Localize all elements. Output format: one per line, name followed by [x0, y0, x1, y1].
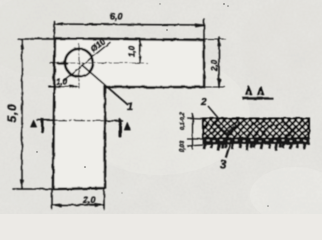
section arrow left (down) [41, 128, 44, 133]
dimension 2,0 bottom line [52, 204, 104, 206]
svg-text:2: 2 [200, 97, 207, 108]
svg-text:2,0: 2,0 [82, 195, 96, 205]
hole horizontal centerline [50, 62, 147, 64]
ink blob at circle left quadrant [58, 62, 67, 65]
letter A left [31, 120, 37, 127]
part interior fill [53, 39, 204, 190]
thickness dim line [192, 114, 194, 150]
hole Ø10 [65, 49, 93, 77]
arrow top 1,0 [139, 39, 142, 46]
dimension 2,0 right line [218, 37, 220, 87]
svg-text:1,0: 1,0 [128, 45, 137, 57]
svg-text:3: 3 [220, 160, 227, 172]
leader Ø10 diagonal [64, 43, 111, 81]
svg-text:1: 1 [127, 101, 133, 113]
arrow right 2,0 bottom [95, 204, 104, 207]
arrow top 2,0 right [218, 36, 221, 46]
arrow left 2,0 bottom [52, 204, 61, 207]
extension lines right for dim 2,0 [204, 39, 225, 87]
section body: cross-hatched layer (item 2) [203, 119, 309, 139]
arrow bottom 2,0 right [218, 79, 221, 88]
svg-text:5,0: 5,0 [5, 103, 19, 122]
white speckles in bottom layer [207, 139, 306, 141]
section stroke right [119, 121, 122, 137]
thickness extension ticks [187, 118, 203, 146]
section title underline [243, 97, 274, 99]
dimension 6,0 line [54, 24, 204, 25]
extension lines below for dim 2,0 bottom [52, 189, 104, 209]
leader item 2 [208, 106, 219, 119]
svg-text:2,0: 2,0 [210, 59, 219, 72]
arrow top 5,0 [21, 40, 24, 49]
extension line top-right (x=204 above part) [203, 19, 205, 39]
arrow right 6,0 [195, 24, 204, 27]
extra hatch irregularity strokes [208, 121, 302, 136]
svg-text:0,03: 0,03 [180, 140, 186, 152]
section title A A [246, 86, 264, 95]
extension line left of top edge (y=39) [18, 38, 55, 40]
extension line top-left (x=54 above part) [53, 21, 55, 39]
dimension 5,0 line [21, 40, 23, 188]
section plane A-A trace [37, 119, 56, 121]
svg-text:1,0: 1,0 [56, 78, 68, 87]
leader item 3 [226, 141, 232, 158]
extension line left of bar bottom (y=189) [13, 188, 53, 190]
section arrow right (up) [118, 119, 121, 125]
dimension 1,0 (top of hole) line [139, 39, 141, 63]
arrow right 1,0 left [70, 85, 78, 88]
hole vertical centerline [78, 44, 80, 88]
arrow left 6,0 [54, 23, 63, 26]
svg-text:0,1-0,2: 0,1-0,2 [180, 112, 186, 130]
letter A right [124, 123, 130, 131]
fringe hatching under section [204, 144, 305, 151]
scan specks [36, 3, 269, 207]
section bottom layer (item 3) [203, 139, 309, 144]
section stroke left [41, 120, 44, 132]
arrow bottom 5,0 [21, 180, 24, 189]
part outline (Γ-shaped plate, item 1) [53, 39, 204, 190]
svg-text:6,0: 6,0 [110, 12, 123, 22]
arrow bottom 1,0 [139, 57, 142, 64]
leader to item 1 [83, 66, 127, 104]
dimension 1,0 (left of hole) line [49, 85, 79, 87]
